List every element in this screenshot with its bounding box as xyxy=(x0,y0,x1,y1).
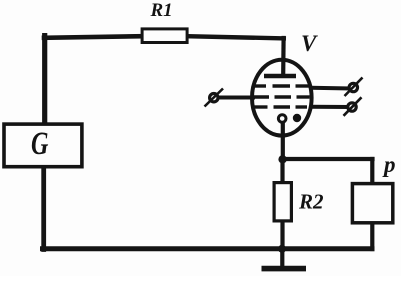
tube grid row 3 xyxy=(254,105,307,108)
node junction at cathode xyxy=(278,155,286,163)
grid lead right lower xyxy=(310,105,351,109)
tube cathode circle xyxy=(278,115,286,123)
terminal circle left xyxy=(210,94,218,102)
svg-text:V: V xyxy=(301,31,318,56)
resistor R2 xyxy=(274,183,291,221)
ground xyxy=(262,266,307,272)
generator G box xyxy=(4,124,82,167)
svg-text:R2: R2 xyxy=(298,190,324,214)
wire P bottom drop xyxy=(370,223,374,250)
wire cathode to node xyxy=(281,123,285,160)
svg-text:p: p xyxy=(382,152,396,177)
device P box xyxy=(352,184,392,223)
terminal circle right upper xyxy=(349,83,357,91)
tube grid row 2 xyxy=(253,95,310,98)
wire R2 bottom to bottom wire xyxy=(280,221,284,250)
wire P top drop xyxy=(370,159,374,184)
wire node to R2 top xyxy=(280,159,284,184)
wire left vertical upper xyxy=(42,36,47,124)
terminal circle right lower xyxy=(348,103,356,111)
tube grid row 1 xyxy=(254,84,309,87)
tube getter dot xyxy=(293,114,301,122)
terminal slash right lower xyxy=(344,97,362,116)
resistor R1 xyxy=(142,29,187,43)
svg-text:R1: R1 xyxy=(150,0,173,21)
wire node to P corner xyxy=(282,157,373,161)
svg-text:G: G xyxy=(31,125,49,162)
tube V envelope xyxy=(252,60,312,136)
tube anode bar xyxy=(264,74,296,78)
grid lead right upper xyxy=(310,86,352,91)
grid lead left xyxy=(214,96,255,100)
wire top horizontal left segment xyxy=(44,36,142,38)
terminal slash right upper xyxy=(345,78,363,97)
wire ground stub xyxy=(280,248,284,267)
wire left vertical lower xyxy=(41,168,46,250)
wire top horizontal right segment xyxy=(188,36,284,38)
wire anode drop xyxy=(281,38,286,75)
node junction at bottom xyxy=(278,245,286,253)
wire bottom horizontal xyxy=(43,246,373,251)
terminal slash left xyxy=(205,89,224,107)
